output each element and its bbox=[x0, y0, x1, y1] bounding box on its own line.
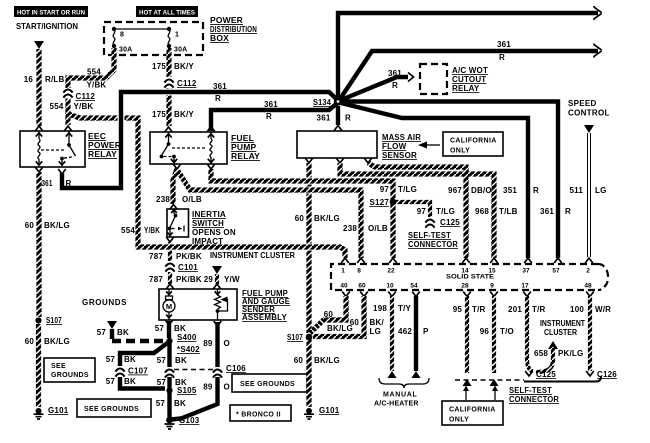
svg-text:CLUSTER: CLUSTER bbox=[544, 328, 577, 337]
wire 100 W/R pin 48 to C126 bbox=[586, 292, 594, 377]
svg-text:CUTOUT: CUTOUT bbox=[452, 75, 486, 84]
wire 175 BK/Y lower bbox=[165, 88, 173, 132]
wire 97 T/LG fuel pump relay to pin 22 bbox=[207, 164, 397, 263]
label 97 T/LG upper bbox=[380, 185, 417, 194]
svg-text:554: 554 bbox=[121, 226, 135, 235]
see grounds box 3 bbox=[232, 374, 307, 392]
svg-text:361: 361 bbox=[317, 114, 331, 123]
svg-text:57: 57 bbox=[97, 328, 107, 337]
svg-text:W/R: W/R bbox=[595, 305, 611, 314]
svg-text:S400: S400 bbox=[177, 333, 197, 342]
connector C101 bbox=[165, 262, 198, 273]
wire 968 T/LB to pin 15 bbox=[336, 158, 498, 263]
svg-text:CALIFORNIA: CALIFORNIA bbox=[449, 407, 496, 414]
wire 198 T/Y pin 10 bbox=[388, 292, 397, 379]
svg-text:C107: C107 bbox=[128, 367, 148, 376]
svg-text:C125: C125 bbox=[440, 218, 460, 227]
wire 511 LG double-line bbox=[585, 133, 593, 263]
EEC relay coil bbox=[36, 132, 42, 167]
label SELF-TEST CONNECTOR top bbox=[408, 231, 458, 249]
wire 95 T/R pin 28 bbox=[463, 292, 472, 387]
svg-text:60: 60 bbox=[25, 221, 35, 230]
wire 57 BK motor to S400 bbox=[165, 320, 173, 338]
wire 554 Y/BK crossing over 787 and 60 BK/LG bbox=[160, 244, 319, 251]
connector C107 bbox=[115, 367, 148, 378]
svg-text:BK/LG: BK/LG bbox=[44, 337, 70, 346]
pin numbers bottom row bbox=[340, 283, 592, 290]
svg-text:554: 554 bbox=[50, 102, 64, 111]
label START/IGNITION bbox=[16, 21, 78, 31]
wire 361 R top run bbox=[338, 6, 602, 97]
svg-text:INSTRUMENT: INSTRUMENT bbox=[540, 319, 585, 328]
ground G101 left bbox=[34, 406, 69, 419]
label MASS AIR FLOW SENSOR bbox=[382, 133, 421, 160]
svg-text:57: 57 bbox=[106, 355, 116, 364]
svg-text:ONLY: ONLY bbox=[449, 417, 469, 424]
self-test connector bracket bbox=[524, 377, 601, 382]
label 60 BK/LG pin40 bbox=[324, 310, 353, 333]
wire 201 T/R pin 17 to C125 bbox=[523, 292, 533, 377]
gauge sender resistor bbox=[215, 290, 228, 320]
splice S127 bbox=[370, 198, 397, 207]
svg-text:A/C WOT: A/C WOT bbox=[452, 66, 488, 75]
svg-text:RELAY: RELAY bbox=[88, 149, 117, 159]
svg-text:CALIFORNIA: CALIFORNIA bbox=[450, 138, 497, 145]
svg-text:1: 1 bbox=[175, 32, 179, 39]
fuel pump relay coil bbox=[208, 133, 214, 164]
svg-text:462: 462 bbox=[398, 327, 412, 336]
label 361 R at MAF bbox=[317, 114, 351, 123]
label 361 R at WOT bbox=[388, 69, 402, 90]
svg-text:658: 658 bbox=[534, 349, 548, 358]
svg-text:CONNECTOR: CONNECTOR bbox=[408, 240, 458, 249]
svg-text:CONTROL: CONTROL bbox=[568, 109, 610, 118]
svg-text:MASS AIR: MASS AIR bbox=[382, 133, 421, 142]
svg-text:238: 238 bbox=[343, 224, 357, 233]
label GROUNDS bbox=[82, 298, 127, 307]
svg-text:BOX: BOX bbox=[210, 33, 229, 43]
splice S105 bbox=[166, 386, 196, 395]
svg-text:HOT AT ALL TIMES: HOT AT ALL TIMES bbox=[139, 10, 196, 17]
label 201 T/R bbox=[508, 305, 545, 314]
label 361 R at pin 57 bbox=[540, 207, 571, 216]
label POWER DISTRIBUTION BOX bbox=[210, 15, 257, 43]
svg-text:BK/LG: BK/LG bbox=[314, 214, 340, 223]
svg-text:BK: BK bbox=[175, 356, 187, 365]
svg-text:60: 60 bbox=[358, 283, 366, 290]
label 60 BK/LG center bbox=[294, 356, 340, 365]
svg-text:R: R bbox=[392, 81, 398, 90]
svg-text:361: 361 bbox=[213, 82, 227, 91]
wire 554 Y/BK from fuse 8 bbox=[64, 48, 114, 131]
svg-text:O: O bbox=[224, 383, 230, 392]
arrow california to MAF bbox=[418, 142, 440, 149]
svg-text:G101: G101 bbox=[48, 406, 69, 415]
fuel pump motor M bbox=[163, 290, 175, 320]
svg-text:INSTRUMENT CLUSTER: INSTRUMENT CLUSTER bbox=[210, 251, 295, 260]
label 554 Y/BK mid bbox=[121, 226, 160, 235]
connector C112 on 554 bbox=[63, 88, 95, 101]
svg-text:HOT IN START OR RUN: HOT IN START OR RUN bbox=[17, 10, 85, 17]
label HOT AT ALL TIMES bbox=[136, 6, 198, 17]
svg-text:MANUAL: MANUAL bbox=[383, 392, 418, 399]
wire 60 BK/LG left bbox=[35, 167, 43, 317]
svg-text:89: 89 bbox=[203, 339, 213, 348]
svg-text:T/LG: T/LG bbox=[398, 185, 417, 194]
label 29 Y/W bbox=[204, 275, 240, 284]
svg-text:BK: BK bbox=[117, 328, 129, 337]
svg-text:O/LB: O/LB bbox=[368, 224, 388, 233]
svg-text:Y/BK: Y/BK bbox=[144, 226, 160, 235]
svg-text:* BRONCO II: * BRONCO II bbox=[236, 412, 281, 419]
svg-text:PK/BK: PK/BK bbox=[176, 252, 202, 261]
connector C106 line and label bbox=[174, 364, 246, 379]
svg-text:SELF-TEST: SELF-TEST bbox=[509, 386, 552, 395]
label 57 BK mid bbox=[157, 356, 187, 365]
svg-text:361: 361 bbox=[42, 179, 53, 188]
see grounds box 2 bbox=[77, 399, 151, 417]
svg-text:OPENS ON: OPENS ON bbox=[192, 228, 236, 237]
svg-text:15: 15 bbox=[488, 268, 496, 275]
connector C106 on 57 BK bbox=[165, 368, 174, 379]
inertia switch contact bbox=[167, 209, 184, 236]
wire 361 R second run bbox=[340, 44, 602, 100]
label INSTRUMENT CLUSTER right bbox=[540, 319, 585, 337]
svg-text:INERTIA: INERTIA bbox=[192, 210, 226, 219]
label 238 O/LB at pin 8 bbox=[343, 224, 388, 233]
svg-text:40: 40 bbox=[340, 283, 348, 290]
arrow from ignition switch bbox=[34, 41, 44, 49]
wire 89 O C106 to G103 bbox=[171, 377, 218, 420]
svg-text:PK/LG: PK/LG bbox=[558, 349, 583, 358]
wire 658 PK/LG bbox=[536, 347, 553, 373]
svg-text:100: 100 bbox=[570, 305, 584, 314]
svg-text:O: O bbox=[224, 339, 230, 348]
label 97 T/LG branch bbox=[417, 207, 455, 216]
svg-text:RELAY: RELAY bbox=[452, 84, 480, 93]
svg-text:O/LB: O/LB bbox=[182, 195, 202, 204]
svg-text:C106: C106 bbox=[226, 364, 246, 373]
svg-text:48: 48 bbox=[584, 283, 592, 290]
wire 60 BK/LG left lower bbox=[36, 324, 41, 407]
wire 57 BK C106 to S105 bbox=[167, 377, 171, 388]
svg-text:BK/Y: BK/Y bbox=[174, 110, 194, 119]
svg-text:10: 10 bbox=[386, 283, 394, 290]
arrow california 1 bbox=[463, 386, 469, 401]
svg-text:175: 175 bbox=[152, 110, 166, 119]
wire 57 BK dashed to S400 bbox=[112, 329, 166, 341]
wire 238 O/LB to inertia switch bbox=[170, 164, 181, 210]
svg-text:C125: C125 bbox=[536, 370, 556, 379]
mass air flow sensor box bbox=[297, 131, 377, 158]
manual AC heater bracket bbox=[379, 378, 429, 388]
label 175 BK/Y lower bbox=[152, 110, 194, 119]
wire 554 Y/BK branch to EEC pin1 bbox=[68, 114, 349, 263]
bronco II note box bbox=[230, 405, 291, 421]
label 60 BK/LG left upper bbox=[25, 221, 70, 230]
arrow 658 PK/LG to instrument cluster bbox=[548, 341, 558, 349]
label SPEED CONTROL bbox=[568, 99, 610, 118]
svg-text:60: 60 bbox=[295, 214, 305, 223]
svg-text:787: 787 bbox=[149, 252, 163, 261]
svg-text:57: 57 bbox=[552, 268, 560, 275]
splice S107 left bbox=[35, 316, 62, 325]
label 95 T/R bbox=[453, 305, 486, 314]
svg-text:14: 14 bbox=[461, 268, 469, 275]
svg-text:554: 554 bbox=[87, 68, 101, 77]
svg-text:30A: 30A bbox=[174, 47, 187, 54]
svg-text:60: 60 bbox=[294, 356, 304, 365]
svg-text:T/LG: T/LG bbox=[436, 207, 455, 216]
arrow 29 Y/W from instrument cluster bbox=[212, 266, 222, 274]
svg-text:22: 22 bbox=[387, 268, 395, 275]
self-test connector dashed line bbox=[455, 379, 524, 381]
wire 351 R to pin 37 bbox=[341, 103, 532, 263]
svg-text:T/Y: T/Y bbox=[398, 304, 412, 313]
svg-text:968: 968 bbox=[475, 207, 489, 216]
svg-text:ONLY: ONLY bbox=[450, 148, 470, 155]
label 60 BK/LG left lower bbox=[25, 337, 70, 346]
pin numbers top row bbox=[341, 268, 590, 275]
wire 967 DB/O to pin 14 bbox=[364, 158, 470, 263]
svg-text:M: M bbox=[166, 302, 172, 311]
svg-text:SWITCH: SWITCH bbox=[192, 219, 224, 228]
svg-text:SEE: SEE bbox=[51, 363, 66, 370]
label HOT IN START OR RUN bbox=[14, 6, 88, 17]
svg-text:R: R bbox=[266, 112, 272, 121]
svg-text:BK/: BK/ bbox=[370, 318, 385, 327]
label 57 BK below C106 bbox=[157, 378, 187, 387]
label 361 R second run bbox=[497, 40, 511, 62]
label 16 R/LB bbox=[24, 75, 65, 84]
label 57 BK loop lower bbox=[106, 377, 136, 386]
fuel pump relay contact bbox=[160, 133, 178, 164]
svg-text:57: 57 bbox=[157, 356, 167, 365]
wire 60 BK/LG pin 40 to S107 bbox=[310, 292, 350, 334]
svg-text:29: 29 bbox=[204, 275, 214, 284]
fuel pump and gauge sender assembly box bbox=[159, 289, 237, 320]
svg-text:BK: BK bbox=[174, 324, 186, 333]
label INSTRUMENT CLUSTER left bbox=[210, 251, 295, 260]
svg-text:GROUNDS: GROUNDS bbox=[51, 372, 89, 379]
svg-text:START/IGNITION: START/IGNITION bbox=[16, 21, 78, 31]
svg-text:89: 89 bbox=[203, 383, 213, 392]
svg-text:P: P bbox=[423, 327, 429, 336]
EEC module solid state box bbox=[331, 264, 608, 290]
label A/C WOT CUTOUT RELAY bbox=[452, 66, 488, 93]
svg-text:C101: C101 bbox=[178, 263, 198, 272]
label 967 DB/O bbox=[448, 186, 492, 195]
inertia switch box bbox=[167, 209, 189, 237]
fuse 8 30A bbox=[112, 27, 133, 54]
label 361 R upper run bbox=[213, 82, 227, 103]
label 96 T/O bbox=[480, 327, 514, 336]
connector C125 bottom label bbox=[536, 370, 556, 379]
wire 89 O sender to C106 bbox=[214, 321, 222, 367]
svg-text:97: 97 bbox=[417, 207, 427, 216]
svg-text:17: 17 bbox=[521, 283, 529, 290]
label 361 R lower run bbox=[264, 100, 278, 121]
label 89 O lower bbox=[203, 383, 230, 392]
svg-text:BK/LG: BK/LG bbox=[314, 356, 340, 365]
label 60 BK/LG pin60 bbox=[350, 318, 385, 336]
label 198 T/Y bbox=[373, 304, 411, 313]
svg-text:GROUNDS: GROUNDS bbox=[82, 298, 127, 307]
wire 361 R to MAF sensor bbox=[334, 106, 342, 131]
svg-text:967: 967 bbox=[448, 186, 462, 195]
relay fuel pump relay box bbox=[150, 132, 227, 164]
arrow grounds bbox=[107, 321, 117, 329]
splice S400 bbox=[166, 333, 200, 354]
svg-text:T/R: T/R bbox=[472, 305, 486, 314]
svg-text:R: R bbox=[345, 114, 351, 123]
svg-text:60: 60 bbox=[350, 318, 360, 327]
label 462 P bbox=[398, 327, 429, 336]
svg-text:S107: S107 bbox=[46, 316, 62, 325]
wire 175 BK/Y upper bbox=[166, 48, 171, 77]
svg-text:RELAY: RELAY bbox=[231, 151, 260, 161]
svg-text:511: 511 bbox=[569, 186, 583, 195]
wire 57 BK S400 to C106 bbox=[167, 341, 171, 367]
svg-text:SENSOR: SENSOR bbox=[382, 151, 417, 160]
wire 96 T/O pin 9 bbox=[490, 292, 499, 387]
ground G101 center bbox=[304, 406, 340, 419]
svg-text:97: 97 bbox=[380, 185, 390, 194]
label 238 O/LB at inertia bbox=[156, 195, 202, 204]
label FUEL PUMP RELAY bbox=[231, 133, 260, 161]
label 100 W/R bbox=[570, 305, 611, 314]
svg-text:C112: C112 bbox=[177, 79, 197, 88]
wire 16 R/LB bbox=[35, 49, 43, 131]
wire 361 R to fuel pump relay bbox=[207, 103, 338, 132]
svg-text:BK: BK bbox=[124, 355, 136, 364]
arrow speed control bbox=[584, 125, 594, 133]
svg-text:R: R bbox=[533, 186, 539, 195]
splice S107 center bbox=[287, 333, 312, 342]
wire 361 R to pin 57 bbox=[342, 102, 562, 264]
svg-text:1: 1 bbox=[341, 268, 345, 275]
wire 361 R to A/C WOT relay bbox=[341, 73, 414, 101]
label 57 BK lower bbox=[156, 399, 186, 408]
svg-text:60: 60 bbox=[25, 337, 35, 346]
svg-text:8: 8 bbox=[120, 32, 124, 39]
svg-text:361: 361 bbox=[388, 69, 402, 78]
svg-text:Y/BK: Y/BK bbox=[74, 102, 94, 111]
label SELF-TEST CONNECTOR bottom bbox=[509, 386, 559, 404]
wire 462 P pin 54 bbox=[412, 292, 421, 379]
svg-text:R: R bbox=[565, 207, 571, 216]
svg-text:BK: BK bbox=[124, 377, 136, 386]
svg-text:T/LB: T/LB bbox=[499, 207, 518, 216]
svg-text:R: R bbox=[215, 94, 221, 103]
label 554 Y/BK upper bbox=[87, 68, 107, 90]
wire 60 BK/LG pin 60 to S107 bbox=[313, 292, 368, 337]
svg-text:R/LB: R/LB bbox=[45, 75, 64, 84]
label FUEL PUMP AND GAUGE SENDER ASSEMBLY bbox=[242, 289, 290, 322]
splice S134 bbox=[313, 97, 342, 107]
svg-text:BK/LG: BK/LG bbox=[44, 221, 70, 230]
EEC relay coil-contact link bbox=[41, 149, 66, 151]
label 57 BK dashed bbox=[97, 328, 129, 337]
wire 238 O/LB to pin 8 bbox=[178, 171, 365, 263]
svg-text:60: 60 bbox=[324, 310, 334, 319]
svg-text:54: 54 bbox=[410, 283, 418, 290]
wire 787 PK/BK lower bbox=[166, 272, 174, 289]
relay A/C WOT cutout relay box bbox=[420, 64, 447, 94]
svg-text:238: 238 bbox=[156, 195, 170, 204]
svg-text:57: 57 bbox=[157, 378, 167, 387]
label 57 BK upper bbox=[155, 324, 186, 333]
svg-text:16: 16 bbox=[24, 75, 34, 84]
label 968 T/LB bbox=[475, 207, 518, 216]
california only box top bbox=[443, 132, 503, 156]
svg-text:201: 201 bbox=[508, 305, 522, 314]
svg-text:R: R bbox=[66, 179, 72, 188]
svg-text:28: 28 bbox=[461, 283, 469, 290]
connector C112 on 175 bbox=[164, 78, 196, 89]
svg-text:30A: 30A bbox=[119, 47, 132, 54]
wire 57 BK loop lower bbox=[120, 377, 165, 389]
label 60 BK/LG MAF bbox=[295, 214, 340, 223]
svg-text:361: 361 bbox=[264, 100, 278, 109]
svg-text:S134: S134 bbox=[313, 98, 331, 107]
label 787 PK/BK upper bbox=[149, 252, 202, 261]
label 175 BK/Y upper bbox=[152, 62, 194, 71]
svg-text:2: 2 bbox=[586, 268, 590, 275]
connector C125 top bbox=[425, 218, 460, 229]
label INERTIA SWITCH OPENS ON IMPACT bbox=[192, 210, 236, 246]
bus wire between fuses bbox=[114, 28, 169, 30]
svg-text:BK: BK bbox=[174, 399, 186, 408]
label 57 BK loop upper bbox=[106, 355, 136, 364]
label 787 PK/BK lower bbox=[149, 275, 202, 284]
svg-text:198: 198 bbox=[373, 304, 387, 313]
fuel pump relay coil-contact link bbox=[172, 147, 206, 149]
wire 97 T/LG branch to C125 bbox=[390, 199, 430, 217]
svg-text:R: R bbox=[499, 53, 505, 62]
svg-text:SELF-TEST: SELF-TEST bbox=[408, 231, 451, 240]
svg-text:Y/W: Y/W bbox=[224, 275, 240, 284]
wire 60 BK/LG S107 to G101 bbox=[306, 334, 313, 407]
svg-text:57: 57 bbox=[155, 324, 165, 333]
wire 60 BK/LG from MAF to S107 bbox=[305, 158, 313, 333]
svg-text:SPEED: SPEED bbox=[568, 99, 597, 108]
svg-text:95: 95 bbox=[453, 305, 463, 314]
label 554 Y/BK lower bbox=[50, 102, 94, 111]
wire 361 R from EEC relay bbox=[58, 92, 338, 188]
svg-text:PK/BK: PK/BK bbox=[176, 275, 202, 284]
label MANUAL A/C-HEATER bbox=[374, 392, 419, 408]
svg-text:T/O: T/O bbox=[500, 327, 514, 336]
svg-text:BK/Y: BK/Y bbox=[174, 62, 194, 71]
svg-text:175: 175 bbox=[152, 62, 166, 71]
svg-text:ASSEMBLY: ASSEMBLY bbox=[242, 313, 287, 322]
svg-text:361: 361 bbox=[497, 40, 511, 49]
ground G103 bbox=[165, 416, 200, 429]
svg-text:IMPACT: IMPACT bbox=[192, 237, 223, 246]
svg-text:SEE GROUNDS: SEE GROUNDS bbox=[240, 381, 295, 388]
svg-text:C112: C112 bbox=[76, 92, 96, 101]
svg-text:SOLID STATE: SOLID STATE bbox=[446, 274, 495, 281]
svg-text:T/R: T/R bbox=[532, 305, 546, 314]
svg-text:57: 57 bbox=[106, 377, 116, 386]
svg-text:9: 9 bbox=[490, 283, 494, 290]
california only box bottom bbox=[442, 401, 503, 425]
svg-text:LG: LG bbox=[370, 327, 382, 336]
label 89 O upper bbox=[203, 339, 230, 348]
label 511 LG bbox=[569, 186, 606, 195]
label 351 R at pin 37 bbox=[503, 186, 539, 195]
